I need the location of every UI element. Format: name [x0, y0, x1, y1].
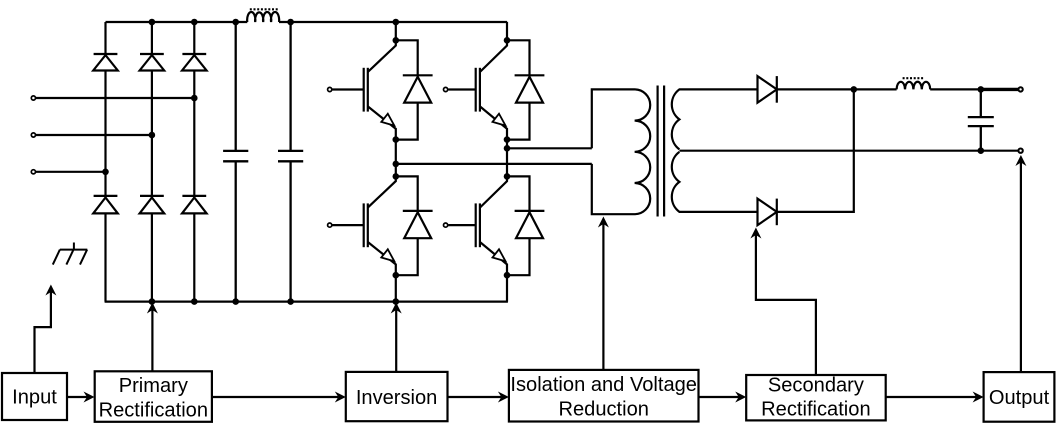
node phase2-leg2	[149, 132, 156, 139]
arrow Secondary Rectification to Output	[886, 392, 984, 403]
arrow Inversion to Isolation	[448, 392, 509, 403]
diode D6	[182, 196, 207, 214]
node rail Q1	[393, 19, 400, 26]
node Q1 emitter	[393, 136, 400, 143]
input terminal phase 1	[31, 96, 35, 100]
diode D3	[182, 54, 207, 71]
svg-text:Isolation and Voltage: Isolation and Voltage	[510, 374, 697, 396]
svg-text:Secondary: Secondary	[768, 375, 864, 397]
diode D2	[140, 54, 165, 71]
block Inversion	[346, 372, 448, 421]
wire phase 3	[36, 171, 106, 173]
node rail leg2	[149, 19, 156, 26]
diode D11 secondary top	[758, 76, 777, 103]
node A	[504, 145, 511, 152]
svg-text:Reduction: Reduction	[558, 398, 648, 420]
inductor L2 core dashed line	[903, 77, 925, 79]
block Input	[2, 373, 67, 420]
node Q3 emitter	[393, 272, 400, 279]
capacitor C1	[223, 22, 248, 302]
svg-text:Rectification: Rectification	[99, 399, 208, 421]
node rail leg3	[191, 19, 198, 26]
node phase1-leg3	[191, 95, 198, 102]
input terminal phase 2	[31, 133, 35, 137]
wire positive rail to L2	[854, 88, 897, 90]
node Q3 collector	[393, 173, 400, 180]
node B	[393, 161, 400, 168]
inductor L1	[247, 12, 279, 22]
wire bridge output A (right leg to transformer)	[507, 147, 592, 149]
wire bridge output B (left leg to transformer)	[396, 163, 592, 165]
arrow Input up to circuit	[35, 285, 57, 374]
diode D1	[93, 54, 118, 71]
transformer T1 secondary top winding	[672, 89, 758, 149]
transistor Q4 IGBT bottom-right	[444, 140, 508, 276]
arrow Output up to output terminal	[1015, 155, 1026, 372]
diode D10 (Q4 freewheel)	[507, 176, 544, 275]
node bus C1	[232, 298, 239, 305]
output terminal -	[1018, 149, 1022, 153]
transformer T1 core	[656, 86, 658, 217]
node Q2 emitter	[504, 136, 511, 143]
capacitor C2	[278, 22, 303, 302]
diode D9 (Q3 freewheel)	[396, 176, 433, 275]
transistor Q2 IGBT top-right	[444, 22, 508, 140]
arrow Isolation to Secondary Rectification	[699, 392, 747, 403]
node Q1 collector	[393, 37, 400, 44]
svg-text:Input: Input	[12, 387, 57, 409]
node C3 top	[978, 86, 985, 93]
arrow Primary Rectification to Inversion	[212, 392, 346, 403]
wire top DC rail	[106, 21, 248, 23]
diode D4	[93, 196, 118, 214]
node phase3-leg1	[102, 169, 109, 176]
transistor Q3 IGBT bottom-left	[328, 140, 396, 276]
wire phase 1	[36, 97, 194, 99]
diode D7 (Q1 freewheel)	[396, 40, 433, 139]
node rail C1	[232, 19, 239, 26]
arrow Secondary Rectification up to diode D12	[750, 228, 816, 376]
wire D12 cathode up to positive rail	[777, 89, 854, 211]
node Q4 emitter	[504, 272, 511, 279]
wire bridge leg 2	[151, 22, 153, 302]
transformer T1 primary	[592, 89, 650, 214]
arrow Isolation up to transformer	[598, 217, 609, 370]
wire center tap	[679, 150, 980, 152]
svg-text:Rectification: Rectification	[761, 399, 870, 421]
transistor Q1 IGBT top-left	[328, 22, 396, 140]
capacitor C3	[968, 89, 994, 150]
wire phase 2	[36, 134, 152, 136]
svg-text:Primary: Primary	[119, 375, 188, 397]
wire bridge leg 3	[193, 22, 195, 302]
node bus leg2	[149, 298, 156, 305]
wire bottom DC bus	[105, 301, 508, 303]
node bus leg3	[191, 298, 198, 305]
node C3 bottom	[978, 147, 985, 154]
wire to lower output terminal	[981, 150, 1018, 152]
svg-text:Output: Output	[989, 387, 1050, 409]
arrow Inversion up to bus	[391, 303, 402, 372]
node bus Q3	[393, 298, 400, 305]
inductor L2	[897, 82, 931, 90]
wire Q3 emitter to bus	[395, 275, 397, 301]
ground	[53, 243, 88, 265]
diode D8 (Q2 freewheel)	[507, 40, 544, 139]
output terminal +	[1018, 87, 1022, 91]
node Q4 collector	[504, 173, 511, 180]
diode D5	[140, 196, 165, 214]
block Secondary Rectification	[746, 375, 886, 421]
transformer T1 secondary bottom winding	[672, 152, 758, 212]
wire D11 cathode	[777, 88, 854, 90]
node Q2 collector	[504, 37, 511, 44]
wire bridge leg 1	[104, 22, 106, 302]
node positive rail	[851, 86, 858, 93]
arrow Primary Rectification up to bus	[147, 303, 158, 372]
node bus C2	[287, 298, 294, 305]
wire L2 to output	[930, 88, 981, 90]
block Isolation and Voltage Reduction	[509, 370, 699, 422]
input terminal phase 3	[31, 170, 35, 174]
diode D12 secondary bottom	[758, 199, 777, 226]
block Output	[984, 372, 1055, 422]
inductor L1 core dashed line	[250, 8, 279, 10]
arrow Input to Primary Rectification	[67, 392, 95, 403]
svg-text:Inversion: Inversion	[356, 387, 438, 409]
wire Q4 emitter to bus	[506, 275, 508, 301]
node rail C2	[287, 19, 294, 26]
block Primary Rectification	[95, 371, 212, 422]
